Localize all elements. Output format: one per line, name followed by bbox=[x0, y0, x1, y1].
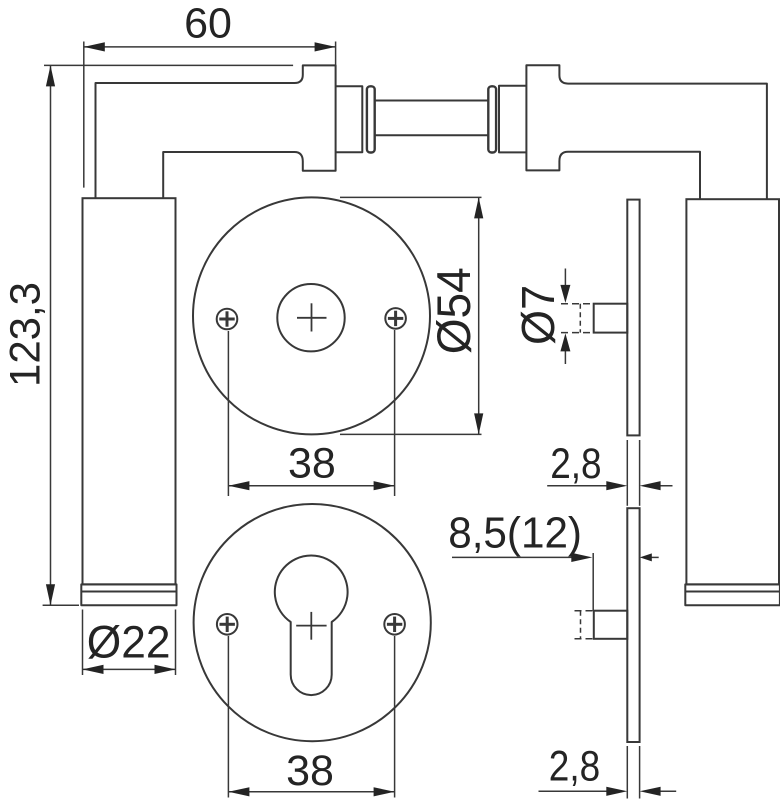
svg-text:2,8: 2,8 bbox=[549, 743, 600, 790]
lower rosette left screw bbox=[217, 614, 238, 635]
dimension 123,3 line bbox=[46, 65, 55, 605]
lower fixing stud bbox=[575, 611, 628, 639]
dimension Ø54 line bbox=[474, 197, 483, 434]
svg-text:60: 60 bbox=[184, 0, 232, 47]
svg-text:38: 38 bbox=[288, 439, 336, 487]
left handle grip end rings bbox=[81, 584, 176, 605]
dimension 8,5(12) leader bbox=[452, 553, 659, 611]
upper plate extension lines bbox=[627, 440, 639, 506]
dimension 60 label bbox=[184, 0, 232, 47]
dimension Ø22 line bbox=[83, 665, 176, 674]
upper dimension 2,8 label bbox=[550, 440, 601, 487]
lower rosette side profile bbox=[627, 508, 639, 742]
dimension Ø7 label bbox=[512, 285, 564, 345]
lower dimension 2,8 arrows bbox=[539, 787, 677, 796]
dimension 8,5(12) label bbox=[448, 509, 582, 558]
lower plate extension lines bbox=[627, 746, 639, 799]
dimension 60 line bbox=[84, 42, 336, 51]
right handle lever outline bbox=[526, 65, 767, 199]
right bearing hub bbox=[499, 86, 526, 153]
svg-text:123,3: 123,3 bbox=[1, 282, 49, 387]
dimension 123,3 label bbox=[1, 282, 49, 387]
right spindle collar bbox=[488, 86, 496, 152]
lower dimension 38 label bbox=[286, 747, 334, 795]
left handle grip tube bbox=[83, 198, 176, 584]
lower dimension 38 line bbox=[228, 787, 394, 796]
upper rosette centerlines bbox=[297, 303, 327, 331]
upper rosette side profile bbox=[627, 200, 639, 436]
svg-text:Ø54: Ø54 bbox=[427, 267, 480, 354]
dimension Ø7 arrows bbox=[560, 269, 570, 365]
upper dimension 2,8 arrows bbox=[547, 481, 672, 490]
left handle lever outline bbox=[96, 65, 336, 198]
left bearing hub bbox=[336, 86, 363, 152]
dimension Ø54 extension lines bbox=[340, 197, 482, 434]
dimension 123,3 extension lines bbox=[43, 65, 294, 605]
dimension Ø22 label bbox=[87, 618, 171, 667]
upper dimension 38 label bbox=[288, 439, 336, 487]
dimension Ø54 label bbox=[427, 267, 480, 354]
square spindle bbox=[375, 101, 489, 136]
lower rosette circle bbox=[194, 504, 431, 741]
svg-text:38: 38 bbox=[286, 747, 334, 795]
upper rosette right screw bbox=[385, 308, 406, 329]
upper rosette handle hole bbox=[277, 284, 344, 351]
dimension 60 extension lines bbox=[84, 42, 336, 188]
lower dimension 38 extension lines bbox=[228, 636, 394, 798]
svg-text:Ø22: Ø22 bbox=[87, 618, 171, 667]
svg-text:Ø7: Ø7 bbox=[512, 285, 564, 345]
svg-text:8,5(12): 8,5(12) bbox=[448, 509, 582, 558]
lower rosette centerlines bbox=[296, 612, 326, 640]
lower rosette cylinder hole bbox=[275, 556, 348, 696]
upper fixing stud bbox=[561, 304, 627, 333]
upper dimension 38 line bbox=[228, 481, 394, 490]
dimension Ø22 extension lines bbox=[83, 610, 176, 676]
upper dimension 38 extension lines bbox=[228, 330, 394, 496]
upper rosette left screw bbox=[217, 309, 238, 330]
right handle grip end rings bbox=[685, 584, 780, 605]
lower dimension 2,8 label bbox=[549, 743, 600, 790]
svg-text:2,8: 2,8 bbox=[550, 440, 601, 487]
upper rosette circle bbox=[193, 197, 430, 434]
left spindle collar bbox=[367, 86, 375, 152]
lower rosette right screw bbox=[384, 614, 405, 635]
right handle grip tube bbox=[686, 199, 779, 584]
